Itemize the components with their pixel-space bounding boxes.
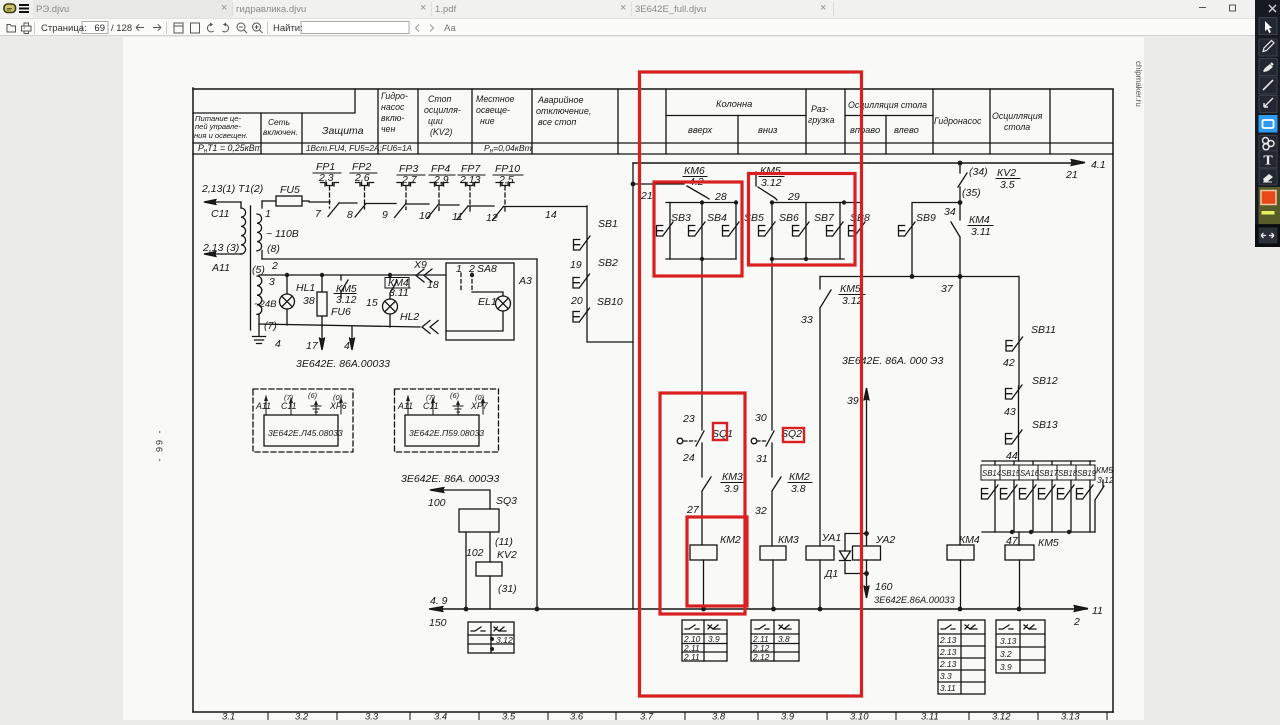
breaker FP4 symbol: [430, 183, 448, 187]
local light unit A3 box: [446, 263, 514, 340]
button 28-chain third: [735, 203, 737, 260]
bottom bus wire: [431, 608, 1087, 610]
button SB4: [701, 203, 703, 260]
contact КМ2 3.8: [772, 477, 781, 546]
svg-text:УА2: УА2: [875, 534, 895, 546]
svg-text:4: 4: [344, 340, 350, 352]
svg-text:SQ1: SQ1: [712, 428, 733, 440]
svg-text:18: 18: [427, 279, 439, 291]
svg-text:3.5: 3.5: [502, 712, 516, 721]
svg-text:КМ2: КМ2: [720, 534, 741, 546]
lamp HL2: [383, 299, 398, 314]
red annotation box SB3/SB4: [654, 182, 742, 276]
button SB7: [839, 203, 841, 260]
chipmaker.ru watermark: [1134, 61, 1143, 107]
contactor coil КМ2: [690, 545, 717, 560]
wire arrow to С11: [206, 201, 241, 203]
svg-text:T: T: [1263, 154, 1273, 169]
limit switch SQ3 block: [433, 490, 490, 509]
contact КМ5 3.12 (bank): [1095, 480, 1104, 532]
svg-text:отключение,: отключение,: [536, 106, 591, 116]
svg-text:С11: С11: [423, 401, 439, 411]
button SB18: [1070, 480, 1072, 532]
svg-text:Д1: Д1: [824, 568, 838, 580]
breaker FP10 symbol: [496, 183, 514, 187]
svg-text:(8): (8): [267, 243, 280, 255]
svg-text:2,5: 2,5: [498, 174, 514, 186]
svg-text:12: 12: [486, 212, 498, 224]
svg-text:А11: А11: [211, 262, 230, 274]
svg-text:2.12: 2.12: [752, 652, 770, 662]
svg-text:~24В: ~24В: [254, 299, 277, 310]
svg-text:4: 4: [275, 338, 281, 350]
header table header-bottom line: [193, 142, 1113, 144]
svg-text:HL2: HL2: [400, 311, 419, 323]
svg-text:SB13: SB13: [1032, 419, 1058, 431]
connector chevrons on lamp rail: [422, 321, 438, 334]
button SB3: [669, 203, 671, 260]
svg-text:(6): (6): [308, 391, 318, 400]
red annotation box КМ2 branch: [660, 393, 745, 614]
svg-text:11: 11: [1092, 605, 1103, 617]
contact КМ3 3.9: [702, 477, 711, 545]
svg-text:SQ3: SQ3: [496, 495, 517, 507]
svg-text:2,6: 2,6: [354, 172, 370, 184]
svg-text:/ 128: / 128: [111, 23, 132, 34]
header table column borders: [261, 89, 1050, 154]
connector X9 chevrons: [416, 269, 432, 282]
svg-text:28: 28: [714, 191, 727, 203]
svg-text:2.13: 2.13: [939, 647, 957, 657]
svg-text:38: 38: [303, 295, 315, 307]
label HL1: [296, 277, 419, 323]
svg-text:69: 69: [94, 23, 105, 34]
button SB11: [1018, 337, 1020, 386]
svg-text:2.11: 2.11: [683, 652, 700, 662]
solenoid УА2 coil: [866, 534, 868, 547]
node 37 horizontal link: [820, 276, 1019, 278]
solenoid УА1 coil: [806, 546, 834, 560]
svg-text:3.4: 3.4: [434, 712, 447, 721]
lamp EL1: [496, 296, 511, 311]
button SB17: [1051, 480, 1053, 532]
svg-text:SA8: SA8: [477, 263, 497, 275]
svg-text:КV2: КV2: [997, 167, 1016, 179]
breaker FP1 symbol: [321, 183, 339, 187]
svg-text:X9: X9: [413, 259, 427, 271]
wire arrow to А11: [206, 253, 241, 255]
svg-text:SB10: SB10: [597, 296, 623, 308]
wire 39 vertical with up arrow: [866, 389, 868, 534]
svg-text:(6): (6): [450, 391, 460, 400]
svg-text:Гидронасос: Гидронасос: [934, 116, 982, 126]
header table sub-split line (Колонна / Осцилляция стола): [666, 115, 933, 117]
selector bank label boxes: [981, 465, 1095, 480]
SA8 dashed poles: [461, 273, 472, 292]
svg-text:SB15: SB15: [1001, 469, 1021, 478]
svg-text:~ 110В: ~ 110В: [266, 228, 299, 240]
svg-text:EL1: EL1: [478, 296, 497, 308]
svg-text:Местное: Местное: [476, 94, 515, 104]
diode Д1 bypass loop: [845, 534, 867, 574]
contact КМ4 3.11 + lamp HL2 branch: [390, 275, 397, 327]
svg-text:3.13: 3.13: [1061, 712, 1080, 721]
sheet frame left border: [192, 88, 194, 712]
svg-text:2,9: 2,9: [433, 174, 449, 186]
svg-text:3.8: 3.8: [791, 483, 806, 495]
svg-text:31: 31: [756, 453, 768, 465]
svg-text:SB17: SB17: [1039, 469, 1059, 478]
bus arrow to 4.1: [1071, 160, 1085, 166]
header table value-row bottom line: [193, 153, 1113, 155]
svg-text:FU5: FU5: [280, 184, 300, 196]
svg-text:ние: ние: [480, 116, 495, 126]
aux contact table КМ5: [996, 620, 1045, 673]
svg-text:2.13: 2.13: [939, 635, 957, 645]
svg-text:С11: С11: [281, 401, 297, 411]
connector XP6: [253, 389, 353, 452]
svg-text:FU6: FU6: [331, 306, 351, 318]
svg-text:3.8: 3.8: [712, 712, 726, 721]
svg-text:3.3: 3.3: [940, 671, 952, 681]
svg-text:3.9: 3.9: [708, 634, 720, 644]
breaker FP7 symbol: [461, 183, 479, 187]
red annotation box SQ2: [783, 428, 804, 442]
svg-text:SB2: SB2: [598, 257, 618, 269]
bank buttons verticals: [995, 461, 1090, 465]
control bus 21 top: [633, 162, 1083, 164]
stop button SB1: [587, 206, 633, 342]
svg-text:Гидро-: Гидро-: [381, 91, 408, 101]
svg-text:3: 3: [269, 276, 275, 288]
svg-text:осцилля-: осцилля-: [424, 105, 461, 115]
contactor coil КМ3: [760, 546, 786, 560]
browser tab bar: [0, 0, 1280, 18]
svg-text:3.9: 3.9: [1000, 662, 1012, 672]
svg-text:39: 39: [847, 395, 859, 407]
svg-text:17: 17: [306, 340, 319, 352]
svg-text:SB4: SB4: [707, 212, 727, 224]
КМ4 branch vertical to coil: [959, 277, 961, 546]
svg-text:(7): (7): [264, 320, 277, 332]
svg-text:Аа: Аа: [444, 23, 456, 34]
svg-text:23: 23: [682, 413, 695, 425]
svg-text:4.1: 4.1: [1091, 159, 1106, 171]
junction dots on wire B: [285, 273, 289, 277]
svg-text:SB11: SB11: [1031, 324, 1056, 336]
svg-text:Осцилляция: Осцилляция: [992, 111, 1043, 121]
stop button SB10: [573, 308, 590, 322]
svg-text:3.2: 3.2: [1000, 649, 1012, 659]
gray desktop strips: [0, 37, 123, 720]
svg-text:вниз: вниз: [758, 125, 778, 135]
selector SA16: [1032, 480, 1034, 532]
bus junction dots: [464, 607, 469, 612]
svg-text:3.11: 3.11: [971, 226, 991, 238]
svg-text:30: 30: [755, 412, 767, 424]
КМ3 branch vertical: [771, 259, 773, 430]
bottom lamp rail: [259, 324, 420, 327]
arrow down 17: [321, 326, 323, 347]
SB9 branch: [912, 203, 960, 223]
svg-text:Найти:: Найти:: [273, 23, 303, 34]
svg-text:10: 10: [419, 210, 431, 222]
svg-text:11: 11: [452, 211, 463, 223]
contactor coil КМ4: [947, 545, 974, 560]
svg-text:3Е642Е. 86А.00033: 3Е642Е. 86А.00033: [296, 358, 390, 370]
svg-text:вклю-: вклю-: [381, 113, 404, 123]
rail below SB3/SB4: [666, 258, 736, 260]
svg-text:КМ5: КМ5: [760, 165, 781, 177]
svg-text:3.12: 3.12: [336, 294, 357, 306]
red annotation box SB5-SB7: [749, 174, 856, 266]
svg-text:3.1: 3.1: [222, 712, 235, 721]
sheet frame bottom border: [193, 711, 1113, 713]
branch КV2 3.5 from bus: [958, 161, 963, 166]
svg-text:2,7: 2,7: [401, 174, 418, 186]
svg-text:SB7: SB7: [814, 212, 835, 224]
stop button SB2: [573, 274, 590, 288]
svg-text:3.12: 3.12: [1097, 475, 1114, 485]
button SB19: [1089, 480, 1091, 532]
FP2 overload contact slash: [355, 204, 366, 218]
svg-text:стола: стола: [1004, 122, 1030, 132]
svg-text:150: 150: [429, 617, 447, 629]
FP1 overload contact slash: [328, 203, 339, 217]
svg-text:SB18: SB18: [1058, 469, 1078, 478]
return wire vertical x537: [536, 259, 538, 609]
svg-text:КМ3: КМ3: [722, 471, 743, 483]
svg-text:2: 2: [271, 260, 278, 272]
limit switch SQ2: [751, 438, 757, 444]
svg-text:вверх: вверх: [688, 125, 713, 135]
svg-text:3Е642Е.Л45.08033: 3Е642Е.Л45.08033: [268, 428, 343, 438]
node 28 rail: [666, 202, 736, 204]
svg-text:КМ4: КМ4: [969, 214, 990, 226]
arrow down to 160: [866, 574, 868, 597]
svg-text:100: 100: [428, 497, 446, 509]
svg-text:9: 9: [382, 209, 388, 221]
svg-text:КМ3: КМ3: [778, 534, 799, 546]
svg-text:все стоп: все стоп: [538, 117, 576, 127]
svg-text:(KV2): (KV2): [430, 127, 453, 137]
svg-text:SA16: SA16: [1020, 469, 1040, 478]
svg-text:ции: ции: [428, 116, 443, 126]
svg-text:8: 8: [347, 209, 353, 221]
svg-text:(31): (31): [498, 583, 517, 595]
FP4 overload contact slash: [427, 205, 438, 219]
svg-text:2,13(1) Т1(2): 2,13(1) Т1(2): [201, 183, 263, 195]
selector bank top rail: [982, 460, 1095, 462]
svg-text:3.8: 3.8: [778, 634, 790, 644]
svg-text:А3: А3: [518, 275, 532, 287]
svg-text:3.11: 3.11: [921, 712, 939, 721]
FP label underlines: [313, 173, 523, 175]
svg-text:33: 33: [801, 314, 813, 326]
sheet zone number line: [268, 712, 1107, 720]
aux contact table КМ3: [751, 620, 799, 661]
SB11 chain from node 37: [1018, 277, 1020, 338]
svg-text:Сеть: Сеть: [268, 117, 290, 127]
svg-text:160: 160: [875, 581, 893, 593]
button SB14: [994, 480, 996, 532]
svg-text:44: 44: [1006, 450, 1018, 462]
svg-text:3Е642Е.86А.00033: 3Е642Е.86А.00033: [874, 595, 955, 605]
svg-text:102: 102: [466, 547, 484, 559]
svg-text:3.13: 3.13: [1000, 636, 1017, 646]
contactor coil КМ5: [1018, 532, 1020, 545]
red annotation big box: [640, 72, 862, 696]
header table outer top line: [193, 88, 1113, 90]
breaker FP2 symbol: [356, 183, 374, 187]
contact КМ4 3.11: [951, 203, 960, 277]
svg-text:3.10: 3.10: [850, 712, 869, 721]
svg-text:ния и освещен.: ния и освещен.: [194, 131, 248, 140]
svg-text:Защита: Защита: [322, 125, 364, 137]
ground symbol: [253, 324, 266, 344]
button SB13: [1018, 431, 1020, 461]
connector XP7: [395, 389, 499, 452]
svg-text:А11: А11: [255, 401, 271, 411]
svg-text:(5): (5): [252, 264, 265, 276]
svg-text:Рн=0,04кВт: Рн=0,04кВт: [484, 143, 532, 155]
box around КМ4 ref: [385, 278, 409, 289]
wire A (tap 2) to vertical x537: [262, 258, 537, 260]
button SB5: [771, 203, 773, 260]
contact КМ5 3.12: [341, 275, 348, 298]
svg-text:3.5: 3.5: [1000, 179, 1015, 191]
limit switch SQ1: [677, 438, 683, 444]
svg-text:3.12: 3.12: [761, 177, 782, 189]
svg-text:SB1: SB1: [598, 218, 618, 230]
red annotation box SQ1: [713, 423, 727, 440]
rail below SB5-SB7: [772, 258, 844, 260]
FP3 overload contact slash: [395, 204, 406, 218]
KV2 aux contact table: [468, 622, 514, 653]
transformer T1: [240, 202, 242, 208]
margin page number -99-: [155, 428, 165, 461]
svg-text:(11): (11): [495, 536, 513, 548]
svg-text:Осцилляция стола: Осцилляция стола: [848, 100, 927, 110]
contactor КМ6 aux contact (column up enable): [633, 184, 709, 199]
FP dashed links: [330, 186, 506, 212]
contactor КМ5 aux contact (top): [756, 172, 777, 200]
scanned schematic page: [123, 37, 1144, 720]
button SB12: [1018, 386, 1020, 431]
svg-text:ХР7: ХР7: [470, 401, 489, 411]
svg-text:3.12: 3.12: [992, 712, 1011, 721]
svg-text:42: 42: [1003, 357, 1015, 369]
fuse FU5: [262, 200, 276, 202]
svg-text:20: 20: [570, 295, 583, 307]
annotation sidebar: [1255, 0, 1280, 247]
wire to lamp EL1: [472, 292, 503, 296]
svg-text:HL1: HL1: [296, 282, 315, 294]
svg-text:43: 43: [1004, 406, 1016, 418]
svg-text:3Е642Е.П59.08033: 3Е642Е.П59.08033: [409, 428, 484, 438]
relay KV2 coil: [476, 562, 502, 576]
lamp HL1 branch: [286, 275, 288, 325]
svg-text:А11: А11: [397, 401, 413, 411]
svg-text:3.2: 3.2: [295, 712, 309, 721]
svg-text:3.11: 3.11: [940, 683, 956, 693]
svg-text:чен: чен: [381, 124, 395, 134]
header table inner line y113 (left strip): [193, 89, 355, 113]
svg-text:3.9: 3.9: [724, 483, 739, 495]
aux contact table КМ2: [682, 620, 727, 661]
svg-text:3.12: 3.12: [842, 295, 863, 307]
svg-text:24: 24: [682, 452, 695, 464]
svg-text:14: 14: [545, 209, 557, 221]
svg-text:3Е642Е. 86А. 000Э3: 3Е642Е. 86А. 000Э3: [401, 473, 500, 485]
svg-text:Аварийное: Аварийное: [537, 95, 584, 105]
svg-text:РнТ1 = 0,25кВт: РнТ1 = 0,25кВт: [198, 143, 262, 155]
svg-text:КМ5: КМ5: [840, 283, 861, 295]
svg-text:УА1: УА1: [821, 532, 841, 544]
button SB8: [861, 203, 863, 277]
svg-text:SB9: SB9: [916, 212, 936, 224]
svg-text:КМ4: КМ4: [959, 534, 980, 546]
svg-text:влево: влево: [894, 125, 919, 135]
svg-text:37: 37: [941, 283, 954, 295]
svg-text:(34): (34): [969, 166, 988, 178]
FP10 overload contact slash: [493, 207, 504, 221]
svg-text:7: 7: [315, 208, 322, 220]
svg-text:2: 2: [1073, 616, 1080, 628]
svg-text:3.9: 3.9: [781, 712, 795, 721]
svg-text:4. 9: 4. 9: [430, 595, 448, 607]
svg-text:SB6: SB6: [779, 212, 799, 224]
svg-text:2,3: 2,3: [318, 172, 334, 184]
sheet frame right border: [1112, 90, 1114, 712]
button SB15: [1013, 480, 1015, 532]
svg-text:2,13 (3): 2,13 (3): [202, 242, 239, 254]
svg-text:Стоп: Стоп: [428, 94, 451, 104]
label ~110В: [252, 184, 300, 350]
svg-text:Колонна: Колонна: [716, 99, 752, 109]
node label 2,13(1): [201, 183, 263, 274]
svg-text:вправо: вправо: [850, 125, 880, 135]
svg-text:2,13: 2,13: [459, 174, 481, 186]
svg-text:15: 15: [366, 297, 378, 309]
svg-text:С11: С11: [211, 208, 229, 220]
button SB6: [805, 203, 807, 260]
breaker FP3 symbol: [397, 183, 415, 187]
svg-text:34: 34: [944, 206, 956, 218]
svg-text:1: 1: [265, 208, 271, 220]
lamp HL1: [280, 294, 295, 309]
svg-text:29: 29: [787, 191, 800, 203]
svg-text:3.12: 3.12: [496, 635, 513, 645]
svg-text:КМ5: КМ5: [1096, 465, 1113, 475]
svg-text:3.3: 3.3: [365, 712, 379, 721]
svg-text:SB14: SB14: [982, 469, 1002, 478]
svg-text:32: 32: [755, 505, 767, 517]
EL1 to inner rail: [446, 311, 503, 331]
svg-text:насос: насос: [381, 102, 405, 112]
svg-text:3.6: 3.6: [570, 712, 584, 721]
svg-text:27: 27: [686, 504, 700, 516]
red annotation box КМ2 coil: [687, 517, 747, 606]
arrow down 4: [351, 327, 353, 347]
svg-text:19: 19: [570, 259, 582, 271]
svg-text:1Вст.FU4, FU5=2А;FU6=1А: 1Вст.FU4, FU5=2А;FU6=1А: [306, 144, 413, 153]
svg-text:SB12: SB12: [1032, 375, 1058, 387]
aux contact table КМ4: [938, 620, 985, 694]
viewer toolbar: [0, 18, 1280, 36]
svg-text:КМ2: КМ2: [789, 471, 810, 483]
svg-text:21: 21: [1065, 169, 1078, 181]
